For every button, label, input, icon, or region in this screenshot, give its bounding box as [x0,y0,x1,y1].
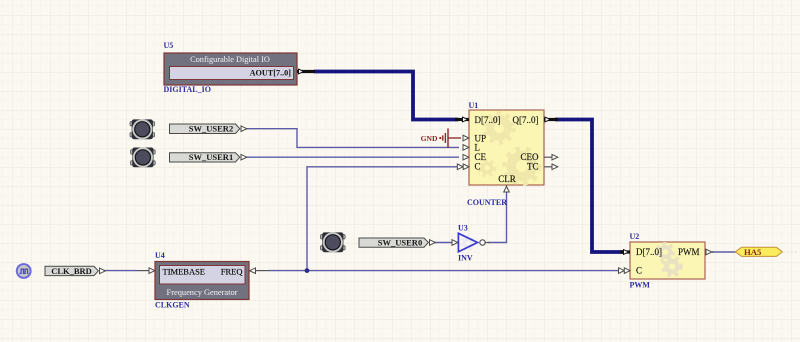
svg-text:CLKGEN: CLKGEN [155,301,190,310]
svg-text:HA5: HA5 [744,247,762,257]
svg-text:COUNTER: COUNTER [467,198,507,207]
svg-text:FREQ: FREQ [221,267,243,277]
svg-text:C: C [475,162,481,172]
svg-text:INV: INV [458,253,473,262]
svg-text:D[7..0]: D[7..0] [475,115,501,125]
svg-text:Frequency Generator: Frequency Generator [167,288,238,297]
svg-text:CLK_BRD: CLK_BRD [51,266,92,276]
svg-text:SW_USER2: SW_USER2 [189,124,233,134]
svg-text:U2: U2 [630,232,640,241]
svg-text:CE: CE [475,152,487,162]
svg-text:SW_USER0: SW_USER0 [378,237,422,247]
svg-text:GND: GND [421,134,438,143]
svg-text:U3: U3 [458,224,468,233]
svg-text:U1: U1 [469,101,479,110]
svg-text:TC: TC [527,162,539,172]
svg-text:Q[7..0]: Q[7..0] [513,115,539,125]
svg-text:C: C [636,265,642,275]
svg-text:DIGITAL_IO: DIGITAL_IO [164,85,211,94]
svg-text:PWM: PWM [630,281,651,290]
svg-text:SW_USER1: SW_USER1 [189,152,233,162]
svg-text:CEO: CEO [521,152,540,162]
svg-text:AOUT[7..0]: AOUT[7..0] [250,68,292,77]
svg-text:U5: U5 [164,41,174,50]
svg-text:U4: U4 [155,251,165,260]
svg-text:D[7..0]: D[7..0] [636,247,662,257]
svg-text:TIMEBASE: TIMEBASE [163,267,206,277]
svg-text:L: L [475,143,481,153]
svg-text:CLR: CLR [498,174,516,184]
svg-text:Configurable Digital IO: Configurable Digital IO [190,55,270,64]
svg-text:PWM: PWM [678,247,700,257]
